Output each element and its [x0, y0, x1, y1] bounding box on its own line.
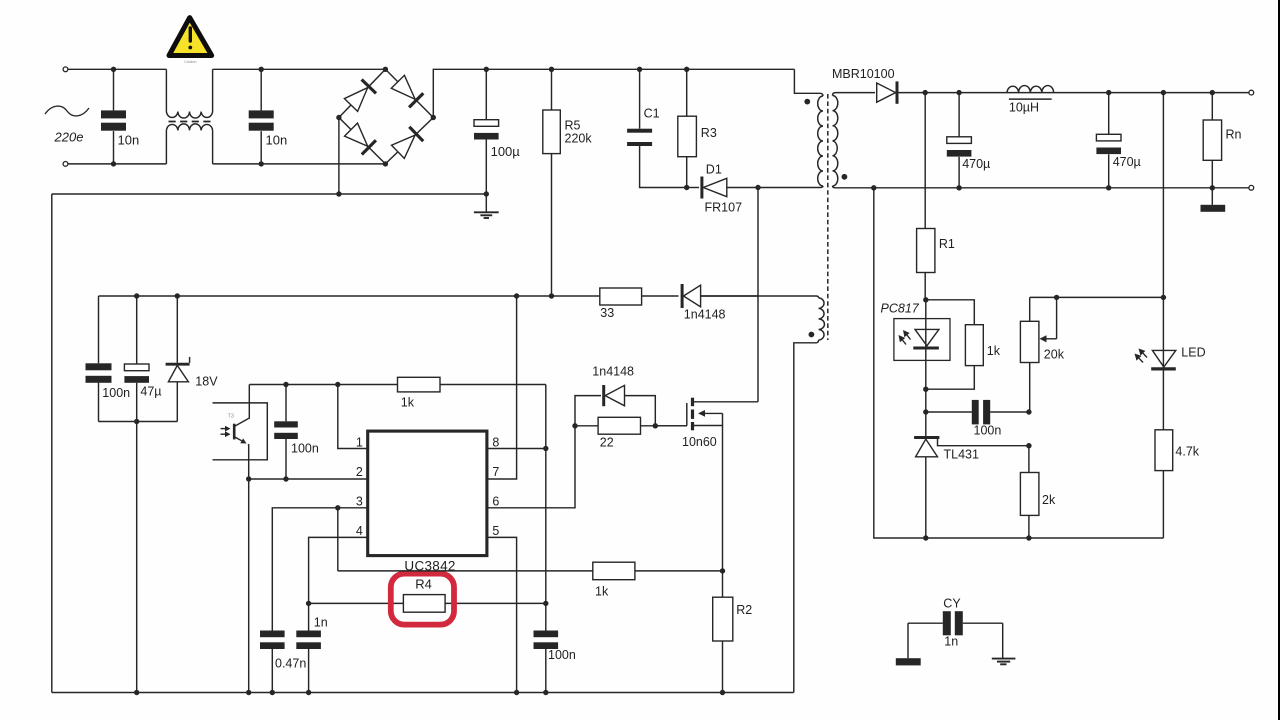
junction pin8 / Vref riser: [543, 446, 548, 451]
junction input cap2 bottom: [259, 161, 264, 166]
junction 100u top: [484, 67, 489, 72]
label 1k (Vref-comp): [401, 396, 415, 410]
label R3: [701, 126, 717, 140]
svg-text:4: 4: [356, 524, 363, 538]
junction secondary bottom / feedback rail: [871, 185, 876, 190]
wire current sense line: [338, 570, 723, 572]
label CY: [943, 596, 961, 610]
inductor 10uH: [1007, 86, 1054, 100]
chassis ground (CY left): [896, 623, 921, 665]
label C1: [644, 107, 660, 121]
wire bottom AC rail mid: [213, 163, 386, 165]
label 1k (sense filter): [595, 585, 609, 599]
junction 470u2 bottom: [1106, 185, 1111, 190]
wire DC+ to primary top: [794, 69, 820, 93]
wire pin 6 gate line: [487, 426, 575, 508]
label 18V: [195, 375, 218, 389]
label LED: [1181, 346, 1205, 360]
aux phase dot: [809, 332, 815, 338]
junction C1 top: [637, 67, 642, 72]
svg-text:T3: T3: [228, 414, 234, 420]
svg-text:D1: D1: [706, 163, 722, 177]
pin 2 number: [356, 465, 363, 479]
right edge black bar: [1278, 0, 1280, 720]
svg-text:7: 7: [492, 465, 499, 479]
resistor 1k (sense filter): [593, 562, 635, 580]
label MBR10100: [832, 67, 895, 81]
junction emitter / bottom rail: [246, 690, 251, 695]
label 20k: [1044, 348, 1065, 362]
label R5: [565, 119, 581, 133]
svg-text:5: 5: [492, 524, 499, 538]
junction bridge left: [336, 115, 341, 120]
wire pin 2 line: [249, 478, 368, 480]
svg-text:PC817: PC817: [881, 302, 920, 316]
chassis ground (Rn): [1201, 188, 1226, 212]
optocoupler PC817 LED: [899, 300, 939, 436]
label 1n (timing): [314, 615, 328, 629]
junction pin6 riser / 22: [572, 423, 577, 428]
junction D1/primary/drain: [755, 185, 760, 190]
junction bridge right: [431, 115, 436, 120]
capacitor 47u (aux): [124, 296, 149, 693]
svg-text:R3: R3: [701, 126, 717, 140]
red highlight around R4: [391, 574, 454, 625]
wire pin 8 stub: [487, 448, 546, 450]
junction MBR/R1: [923, 90, 928, 95]
capacitor 470u (1): [947, 93, 972, 188]
svg-text:10n: 10n: [118, 133, 140, 148]
junction 100u ground: [484, 191, 489, 196]
common-mode choke L1 top winding: [166, 69, 212, 118]
svg-text:1n: 1n: [944, 634, 958, 648]
wire top AC rail left: [68, 68, 166, 70]
wire bridge right to DC+ rail: [433, 69, 794, 117]
junction input cap1 top: [111, 67, 116, 72]
label 100n (feedback): [974, 424, 1002, 438]
transformer core: [827, 94, 829, 340]
wire pin 4 line: [309, 537, 368, 603]
bridge rectifier frame: [339, 69, 433, 164]
wire comp line (1k feed): [249, 384, 546, 386]
svg-text:100n: 100n: [974, 424, 1002, 438]
label D1: [706, 163, 722, 177]
label 100n (aux): [102, 386, 130, 400]
junction input cap2 top: [259, 67, 264, 72]
junction 470u2 top: [1106, 90, 1111, 95]
junction sense top: [1161, 90, 1166, 95]
resistor 1k (opto bias): [926, 325, 984, 390]
wire pin 3 sense riser: [337, 508, 339, 571]
wire gate drive line: [575, 425, 687, 427]
label PC817: [881, 302, 920, 316]
potentiometer 20k: [1020, 297, 1056, 412]
junction bridge bottom: [383, 161, 388, 166]
resistor R5 220k: [543, 69, 561, 296]
junction pin5 / bottom rail: [514, 690, 519, 695]
choke core dashes: [169, 121, 211, 123]
junction aux line / zener: [175, 293, 180, 298]
resistor R2: [713, 571, 733, 693]
pin 7 number: [492, 465, 499, 479]
secondary phase dot: [842, 174, 848, 180]
junction opto/1k bottom: [923, 387, 928, 392]
label 33: [600, 306, 614, 320]
shunt regulator TL431: [914, 438, 1029, 539]
wire bottom rail to aux winding: [794, 343, 816, 693]
junction sense line / R2: [720, 568, 725, 573]
wire Vref riser (1k to pin8): [545, 385, 547, 604]
wire top AC rail mid: [213, 68, 386, 70]
label T3: [228, 414, 234, 420]
wire feedback section ground rail: [874, 188, 1164, 538]
svg-text:0.47n: 0.47n: [275, 657, 306, 671]
label 10n60: [682, 435, 717, 449]
svg-text:6: 6: [492, 494, 499, 508]
junction TL431 ref / divider: [1026, 443, 1031, 448]
junction 470u1 bottom: [956, 185, 961, 190]
svg-text:MBR10100: MBR10100: [832, 67, 895, 81]
transistor 10n60 MOSFET: [654, 398, 758, 571]
label 10uH: [1009, 101, 1039, 115]
junction Rn top: [1210, 90, 1215, 95]
wire pin 3 line: [272, 508, 367, 631]
wire bottom AC rail left: [68, 163, 166, 165]
diode MBR10100: [877, 81, 926, 103]
svg-text:100n: 100n: [102, 386, 130, 400]
junction R1/PC817/1k: [923, 297, 928, 302]
label 10n (cap2): [266, 133, 288, 148]
svg-text:R1: R1: [939, 237, 955, 251]
wire R4 line: [309, 602, 546, 604]
primary phase dot: [804, 99, 810, 105]
label 100n (Vref): [548, 648, 576, 662]
earth ground (CY right): [992, 623, 1016, 664]
optocoupler PC817 LED box: [894, 319, 950, 361]
zener diode 18V: [166, 296, 190, 422]
junction 100n/pin2: [283, 476, 288, 481]
svg-text:Caution: Caution: [184, 60, 196, 64]
pin 1 number: [356, 436, 363, 450]
ground (primary): [474, 194, 499, 218]
svg-text:2k: 2k: [1042, 493, 1056, 507]
svg-text:1n4148: 1n4148: [592, 365, 634, 379]
label R2: [736, 603, 752, 617]
label 1n4148 (aux): [684, 308, 726, 322]
wire bridge left to primary ground: [338, 118, 340, 195]
bridge diode D-br: [392, 127, 424, 159]
capacitor C1: [627, 69, 687, 187]
svg-text:33: 33: [600, 306, 614, 320]
junction R3 top: [684, 67, 689, 72]
svg-text:LED: LED: [1181, 346, 1205, 360]
junction aux line / 47u: [134, 293, 139, 298]
capacitor 100n (feedback): [926, 400, 1029, 425]
junction pin4 / R4 / 1n: [306, 601, 311, 606]
svg-text:CY: CY: [943, 596, 961, 610]
AC source symbol: [45, 106, 89, 116]
label Caution: [184, 60, 196, 64]
label TL431: [944, 448, 979, 462]
junction R4 / Vref net: [543, 601, 548, 606]
svg-text:1: 1: [356, 436, 363, 450]
junction 0.47n / bottom rail: [270, 690, 275, 695]
svg-text:8: 8: [492, 436, 499, 450]
svg-text:470µ: 470µ: [1113, 155, 1141, 169]
junction input cap1 bottom: [111, 161, 116, 166]
svg-text:1k: 1k: [401, 396, 415, 410]
label 1n4148 (gate): [592, 365, 634, 379]
svg-text:470µ: 470µ: [962, 157, 990, 171]
label R4: [415, 577, 432, 592]
optocoupler T3 light arrows: [221, 426, 231, 437]
junction TL431 cathode net: [923, 409, 928, 414]
transformer aux winding: [701, 296, 825, 343]
svg-text:1n: 1n: [314, 615, 328, 629]
diode D1 FR107: [687, 177, 758, 199]
label 470u (2): [1113, 155, 1141, 169]
junction TL431 anode / rail: [923, 535, 928, 540]
pin 6 number: [492, 494, 499, 508]
svg-text:2: 2: [356, 465, 363, 479]
capacitor 100n (aux filter): [86, 296, 112, 422]
resistor R4: [403, 595, 445, 613]
svg-text:C1: C1: [644, 107, 660, 121]
wire emitter to bottom rail: [248, 479, 250, 693]
wire drain riser: [757, 188, 759, 402]
svg-text:R4: R4: [415, 577, 432, 592]
wire 1k top: [926, 300, 975, 325]
label 1k (opto bias): [987, 344, 1001, 358]
label 0.47n: [275, 657, 306, 671]
label Rn: [1226, 128, 1242, 142]
bridge diode D-tr: [391, 75, 423, 107]
svg-text:FR107: FR107: [705, 201, 743, 215]
svg-text:1n4148: 1n4148: [684, 308, 726, 322]
label 220k: [565, 132, 593, 146]
junction 1n / bottom rail: [306, 690, 311, 695]
junction aux line / VCC riser: [514, 293, 519, 298]
node L (AC live input terminal): [63, 67, 68, 72]
bridge diode D-bl: [345, 123, 376, 154]
junction Rn bottom: [1210, 185, 1215, 190]
pin 4 number: [356, 524, 363, 538]
junction emitter/pin2: [246, 476, 251, 481]
transformer secondary winding: [833, 93, 876, 188]
svg-text:100n: 100n: [291, 442, 319, 456]
junction R2 / bottom rail: [720, 690, 725, 695]
capacitor 100u (bulk): [474, 69, 499, 194]
label UC3842: [404, 559, 455, 574]
junction pot line / sense vertical: [1161, 295, 1166, 300]
svg-text:R2: R2: [736, 603, 752, 617]
wire aux supply line: [99, 295, 600, 297]
pin 3 number: [356, 494, 363, 508]
svg-text:Rn: Rn: [1226, 128, 1242, 142]
label 47u: [140, 385, 161, 399]
junction bridge top: [383, 67, 388, 72]
junction pin3 / sense riser: [335, 505, 340, 510]
svg-text:10µH: 10µH: [1009, 101, 1039, 115]
bridge diode D-tl: [344, 80, 376, 112]
junction bridge-left / ground line: [336, 191, 341, 196]
junction comp line / 100n: [283, 382, 288, 387]
label 470u (1): [962, 157, 990, 171]
capacitor 470u (2): [1096, 93, 1121, 188]
junction pot bottom / 100n: [1026, 409, 1031, 414]
svg-text:1k: 1k: [595, 585, 609, 599]
wire output ground rail: [874, 187, 1249, 189]
capacitor 10n (input X-cap 1): [101, 69, 126, 164]
svg-text:4.7k: 4.7k: [1175, 445, 1199, 459]
label 100u: [491, 144, 521, 159]
wire primary bottom rail: [52, 692, 794, 694]
pin 5 number: [492, 524, 499, 538]
resistor 4.7k: [1155, 430, 1173, 538]
label 4.7k: [1175, 445, 1199, 459]
capacitor 10n (input X-cap 2): [249, 69, 274, 164]
node output + terminal: [1249, 90, 1254, 95]
junction 470u1 top: [956, 90, 961, 95]
svg-text:22: 22: [600, 436, 614, 450]
svg-text:R5: R5: [565, 119, 581, 133]
svg-text:18V: 18V: [195, 375, 218, 389]
wire output + rail: [925, 92, 1249, 94]
wire primary ground line: [52, 193, 487, 195]
junction 47u bottom: [134, 419, 139, 424]
capacitor 1n: [296, 603, 321, 692]
wire sense branch vertical: [1162, 93, 1164, 368]
svg-text:100µ: 100µ: [491, 144, 521, 159]
pin 8 number: [492, 436, 499, 450]
capacitor CY 1n: [908, 611, 1003, 635]
transformer primary winding: [758, 93, 823, 187]
svg-text:20k: 20k: [1044, 348, 1065, 362]
resistor 2k: [1020, 446, 1039, 538]
junction pot wiper: [1054, 295, 1059, 300]
svg-text:10n: 10n: [266, 133, 288, 148]
node N (AC neutral input terminal): [63, 162, 68, 167]
label 220e: [54, 130, 84, 145]
capacitor 100n (VCC local): [274, 385, 298, 480]
wire pin 5 ground riser: [487, 537, 517, 692]
diode 1n4148 (aux): [642, 284, 758, 308]
resistor 22: [598, 417, 640, 434]
label 10n (cap1): [118, 133, 140, 148]
svg-text:10n60: 10n60: [682, 435, 717, 449]
svg-text:3: 3: [356, 494, 363, 508]
resistor R1: [917, 93, 935, 300]
optocoupler T3 phototransistor: [234, 385, 249, 480]
junction comp line / pin1: [335, 382, 340, 387]
wire pin 1: [338, 385, 368, 449]
svg-text:100n: 100n: [548, 648, 576, 662]
label 1n (CY): [944, 634, 958, 648]
junction 2k / rail: [1026, 535, 1031, 540]
diode 1n4148 (gate): [575, 385, 655, 426]
svg-text:47µ: 47µ: [140, 385, 161, 399]
optocoupler T3 box: [213, 403, 268, 460]
label 100n (VCC local): [291, 442, 319, 456]
wire aux filter bottom link: [99, 421, 178, 423]
IC UC3842 box: [368, 431, 487, 555]
svg-text:220e: 220e: [54, 130, 84, 145]
LED indicator: [1135, 349, 1176, 430]
label 2k: [1042, 493, 1056, 507]
junction C1/R3/D1: [684, 185, 689, 190]
junction 47u / bottom rail: [134, 690, 139, 695]
common-mode choke L1 bottom winding: [166, 124, 212, 164]
svg-text:220k: 220k: [565, 132, 593, 146]
resistor 1k (Vref-comp): [398, 377, 441, 392]
svg-text:1k: 1k: [987, 344, 1001, 358]
label 22: [600, 436, 614, 450]
node output - terminal: [1249, 185, 1254, 190]
junction aux line / R5: [549, 293, 554, 298]
wire pin 7 VCC riser: [487, 296, 517, 479]
wire left border: [51, 194, 53, 693]
capacitor 0.47n: [260, 631, 285, 693]
junction R5 top: [549, 67, 554, 72]
label R1: [939, 237, 955, 251]
warning triangle: [169, 18, 212, 56]
resistor Rn: [1203, 93, 1221, 188]
svg-text:TL431: TL431: [944, 448, 979, 462]
capacitor 100n (Vref): [534, 603, 559, 692]
wire pot top line: [1030, 296, 1164, 298]
label FR107: [705, 201, 743, 215]
junction Vref 100n / bottom rail: [543, 690, 548, 695]
junction 22 / diode right: [653, 423, 658, 428]
resistor 33: [600, 288, 642, 305]
resistor R3: [678, 69, 697, 187]
